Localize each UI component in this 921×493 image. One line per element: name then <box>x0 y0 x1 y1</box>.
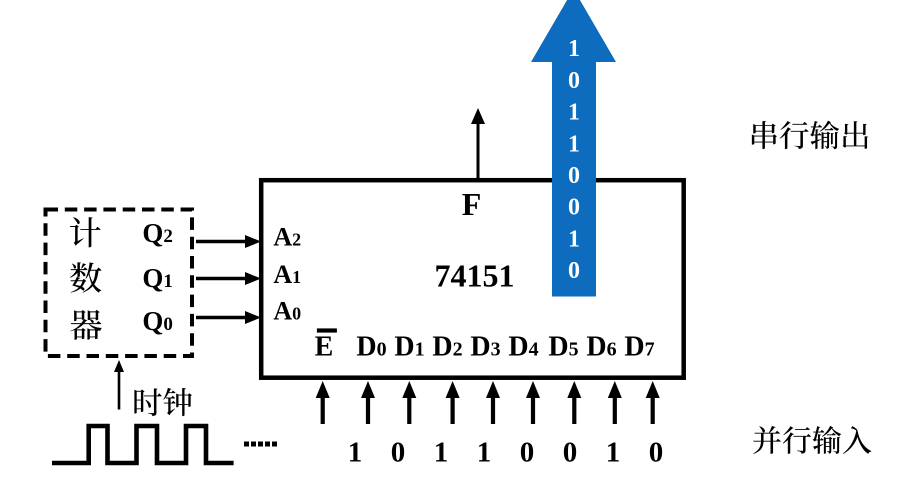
svg-text:0: 0 <box>649 437 664 469</box>
serial bit 4 value 0 <box>568 163 580 189</box>
input wire to pin D5 <box>567 381 581 424</box>
svg-text:E: E <box>315 332 334 363</box>
svg-text:1: 1 <box>568 100 580 126</box>
svg-text:1: 1 <box>477 437 492 469</box>
input bit D7 value 0 <box>649 437 664 469</box>
node Q0 <box>142 306 173 336</box>
svg-text:0: 0 <box>568 258 580 284</box>
svg-text:D7: D7 <box>624 332 654 363</box>
svg-text:D4: D4 <box>508 332 538 363</box>
wire clock to counter <box>114 360 124 410</box>
svg-text:1: 1 <box>348 437 363 469</box>
serial bit 7 value 0 <box>568 258 580 284</box>
svg-text:A2: A2 <box>273 223 301 252</box>
svg-text:D5: D5 <box>548 332 578 363</box>
svg-text:1: 1 <box>568 131 580 157</box>
input wire to pin D0 <box>361 381 375 424</box>
pin D2 <box>432 332 462 363</box>
node Q2 <box>142 218 173 248</box>
svg-text:0: 0 <box>520 437 535 469</box>
pin D1 <box>394 332 424 363</box>
pin F <box>462 186 482 222</box>
svg-text:1: 1 <box>568 36 580 62</box>
ellipsis dots <box>244 442 277 447</box>
clock waveform <box>52 426 234 463</box>
svg-text:1: 1 <box>434 437 449 469</box>
input bit D2 value 1 <box>434 437 449 469</box>
svg-text:1: 1 <box>568 226 580 252</box>
pin D5 <box>548 332 578 363</box>
svg-text:Q0: Q0 <box>142 306 173 336</box>
svg-text:A1: A1 <box>273 260 301 289</box>
label 串行输出 (serial output) <box>752 121 868 150</box>
pin D3 <box>470 332 500 363</box>
input bit D5 value 0 <box>563 437 578 469</box>
svg-text:0: 0 <box>568 163 580 189</box>
label 并行输入 (parallel input) <box>753 426 871 454</box>
IC U1 74151 box <box>261 180 684 378</box>
counter box (dashed) <box>46 210 193 357</box>
serial output arrow (blue) <box>531 0 616 297</box>
input wire to pin E <box>316 381 330 424</box>
serial bit 2 value 1 <box>568 100 580 126</box>
svg-text:Q2: Q2 <box>142 218 173 248</box>
wire F output <box>471 108 485 179</box>
svg-text:D2: D2 <box>432 332 462 363</box>
svg-text:D6: D6 <box>586 332 616 363</box>
wire Q2 to A2 <box>196 235 261 248</box>
input wire to pin D3 <box>486 381 500 424</box>
counter label 数 <box>70 262 101 292</box>
input wire to pin D1 <box>402 381 416 424</box>
svg-text:0: 0 <box>568 68 580 94</box>
wire Q0 to A0 <box>196 311 261 324</box>
pin D4 <box>508 332 538 363</box>
pin A0 <box>273 297 301 326</box>
input wire to pin D6 <box>608 381 622 424</box>
serial bit 6 value 1 <box>568 226 580 252</box>
counter label 计 <box>70 217 101 247</box>
svg-text:0: 0 <box>391 437 406 469</box>
serial bit 5 value 0 <box>568 195 580 221</box>
svg-text:74151: 74151 <box>435 258 515 294</box>
svg-text:0: 0 <box>563 437 578 469</box>
pin A1 <box>273 260 301 289</box>
svg-text:D3: D3 <box>470 332 500 363</box>
wire Q1 to A1 <box>196 272 261 285</box>
pin E (enable, active-low, with overline) <box>315 328 337 362</box>
input bit D1 value 0 <box>391 437 406 469</box>
input wire to pin D4 <box>526 381 540 424</box>
svg-text:F: F <box>462 186 482 222</box>
input wire to pin D2 <box>446 381 460 424</box>
pin D6 <box>586 332 616 363</box>
pin D7 <box>624 332 654 363</box>
svg-text:A0: A0 <box>273 297 301 326</box>
svg-text:1: 1 <box>606 437 621 469</box>
input bit D6 value 1 <box>606 437 621 469</box>
pin D0 <box>356 332 386 363</box>
node Q1 <box>142 263 173 293</box>
input bit D4 value 0 <box>520 437 535 469</box>
svg-text:0: 0 <box>568 195 580 221</box>
svg-text:D0: D0 <box>356 332 386 363</box>
pin A2 <box>273 223 301 252</box>
input wire to pin D7 <box>646 381 660 424</box>
serial bit 3 value 1 <box>568 131 580 157</box>
label 时钟 (clock) <box>134 388 192 416</box>
input bit D0 value 1 <box>348 437 363 469</box>
serial bit 1 value 0 <box>568 68 580 94</box>
counter label 器 <box>70 310 101 340</box>
serial bit 0 value 1 <box>568 36 580 62</box>
svg-text:D1: D1 <box>394 332 424 363</box>
IC label 74151 <box>435 258 515 294</box>
svg-text:Q1: Q1 <box>142 263 173 293</box>
input bit D3 value 1 <box>477 437 492 469</box>
